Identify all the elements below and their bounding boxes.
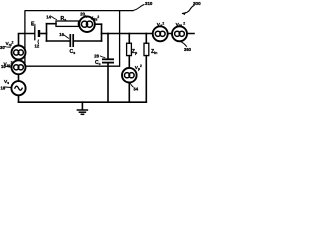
leader squiggle 18	[5, 86, 11, 89]
noise source Vp2 circle	[122, 68, 137, 83]
leader squiggle 14	[52, 17, 57, 20]
dashed box (sensor model) 310	[25, 11, 133, 67]
load noise VRL2 circle	[172, 26, 187, 41]
svg-text:300: 300	[193, 1, 201, 6]
wire: resistor to noise source	[79, 23, 80, 25]
svg-text:16: 16	[59, 32, 64, 37]
svg-text:14: 14	[46, 14, 51, 19]
wire: battery to junction	[41, 33, 47, 35]
svg-text:10: 10	[1, 64, 6, 69]
wire: top branch left	[47, 23, 57, 25]
svg-text:310: 310	[145, 1, 153, 6]
resistor Rs	[56, 21, 79, 26]
wire between Vxx2 and Vs	[18, 75, 20, 82]
capacitor Cc plates	[103, 58, 113, 60]
leader squiggle 28	[100, 56, 105, 57]
battery E1 short plate	[38, 30, 40, 37]
svg-text:30: 30	[0, 45, 5, 50]
left column noise source Vxx2	[12, 60, 26, 74]
left column noise source Vni2	[12, 46, 26, 60]
wire: loop right vertical	[101, 24, 103, 41]
capacitor Cs plates	[69, 35, 71, 46]
leader squiggle 20	[85, 15, 87, 17]
svg-text:360: 360	[184, 47, 192, 52]
svg-text:28: 28	[94, 54, 99, 59]
svg-text:34: 34	[133, 87, 138, 92]
signal source Vs circle	[11, 81, 25, 95]
ground rail	[19, 101, 147, 103]
Zin branch	[145, 34, 147, 44]
wire: Vs to ground rail	[18, 95, 20, 102]
leader squiggle 12	[37, 40, 40, 44]
main output wire	[102, 33, 195, 35]
wire: junction vertical	[46, 24, 48, 41]
svg-text:18: 18	[1, 85, 6, 90]
leader squiggle 16	[64, 35, 69, 38]
amplifier noise VA2 circle	[153, 26, 168, 41]
Zp branch	[128, 34, 130, 44]
impedance Zin box	[144, 43, 149, 55]
leader squiggle 310	[133, 5, 144, 11]
impedance Zp box	[127, 43, 132, 55]
leader arrow 300	[183, 6, 195, 14]
leader squiggle 30	[5, 46, 11, 49]
leader squiggle 10	[5, 66, 12, 67]
leader squiggle 34	[130, 83, 133, 87]
ground symbol	[81, 102, 83, 109]
noise source VRs2 circle	[79, 16, 95, 32]
wire: bottom branch right	[74, 40, 101, 42]
wire: bottom branch left	[47, 40, 70, 42]
wire: left column top to battery	[19, 34, 35, 47]
leader squiggle 360	[181, 42, 186, 47]
wire: noise source to right vertical	[95, 23, 102, 25]
svg-text:20: 20	[80, 11, 85, 16]
battery E1 long plate	[34, 27, 36, 40]
svg-text:12: 12	[35, 44, 40, 49]
capacitor Cc branch vertical	[107, 34, 109, 59]
